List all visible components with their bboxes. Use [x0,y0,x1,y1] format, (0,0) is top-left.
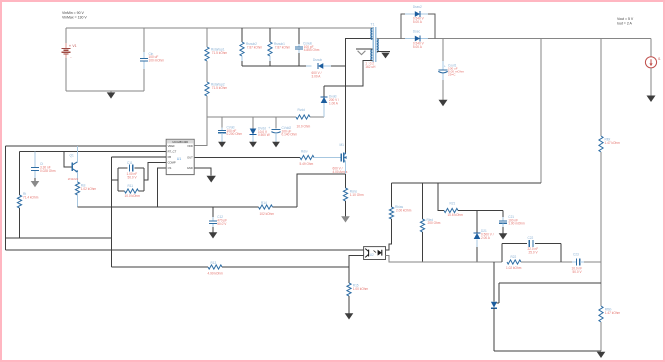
ground IC [207,176,216,183]
resistor R14 [259,205,273,209]
wire Dsec2 branch [401,14,405,39]
svg-text:+: + [268,126,270,130]
resistor Rstartup2 [205,82,209,96]
wire secondary gnd return [494,350,601,352]
wire FB node column [111,157,113,267]
ground input [110,91,112,92]
wire startup column [206,28,208,47]
wire CS jog [158,168,167,207]
wire input bottom [66,90,144,92]
wire input top rail [66,27,373,29]
svg-text:+: + [444,65,446,69]
wire opto bias rail [392,182,542,184]
resistor Rled [422,183,424,219]
wire output rail [428,38,651,40]
capacitor C12 [212,207,214,217]
svg-text:Dsec: Dsec [413,30,421,34]
svg-text:Iout = 2 A: Iout = 2 A [617,21,633,25]
ground fb bottom [597,352,606,358]
mosfet M1 [340,154,342,162]
voltage source V1 [62,47,71,49]
svg-text:R13: R13 [211,261,217,265]
svg-text:Dsnub: Dsnub [313,58,322,62]
capacitor Csnub [295,46,303,48]
svg-text:5.00 A: 5.00 A [413,45,423,49]
svg-text:50.0 V: 50.0 V [217,222,227,226]
diode D21 [476,211,478,233]
svg-text:5.00 A: 5.00 A [413,20,423,24]
ground Ct [31,181,40,187]
diode Dsec [405,38,415,40]
svg-text:CS: CS [168,166,172,170]
ground C21 [499,233,508,239]
svg-text:COMP: COMP [168,161,176,165]
svg-text:T1: T1 [371,22,375,26]
svg-text:Dsec2: Dsec2 [413,5,422,9]
svg-text:25=C: 25=C [448,73,456,77]
svg-text:5.49 Ohm: 5.49 Ohm [300,162,314,166]
capacitor CVdd [221,117,223,128]
ground secondary return [377,51,390,53]
svg-text:C22: C22 [528,236,534,240]
svg-text:100 mOhm: 100 mOhm [149,59,165,63]
resistor Rdrv [300,155,314,159]
wire Vout sense column [600,39,602,137]
wire VREF line [6,145,167,147]
svg-text:R22: R22 [511,255,517,259]
svg-text:R11: R11 [128,184,134,188]
svg-text:1.00 A: 1.00 A [329,101,339,105]
diode Dsnub [306,65,312,67]
ground C12 [209,232,218,238]
svg-text:R21: R21 [450,202,456,206]
wire opto out [386,256,502,263]
wire source [345,161,347,174]
svg-text:C23: C23 [573,252,579,256]
svg-text:4.854 Ohm: 4.854 Ohm [304,48,320,52]
svg-text:10.0 Ohm: 10.0 Ohm [297,125,311,129]
resistor Rsns [343,188,347,201]
resistor Rt [17,195,21,208]
svg-text:1.47 kOhm: 1.47 kOhm [605,141,621,145]
wire fb mid [600,262,602,306]
capacitor Ct [34,152,36,168]
capacitor CVdd2 [275,117,277,129]
ground R15 [345,313,354,319]
svg-text:0.028 Ohm: 0.028 Ohm [40,169,56,173]
ground Rsns [341,216,350,222]
shunt regulator U3 TL431 [493,262,495,302]
resistor R15 [348,267,350,283]
svg-text:2.00 kOhm: 2.00 kOhm [396,209,412,213]
svg-text:Q1: Q1 [70,154,74,158]
svg-text:10.6 kOhm: 10.6 kOhm [448,213,464,217]
wire aux winding to Dvdd [324,61,372,86]
svg-text:102 kOhm: 102 kOhm [260,212,275,216]
svg-text:50.0 V: 50.0 V [573,270,583,274]
ground aux top [356,48,372,50]
op-amp U1 controller UCC28C43 [166,139,194,174]
wire snubber bottom [242,65,306,67]
svg-text:1.02 kOhm: 1.02 kOhm [506,266,522,270]
wire VREF to opto collector [6,249,364,251]
svg-text:71.4 kOhm: 71.4 kOhm [23,195,39,199]
diode Dsec2 [405,13,415,15]
svg-text:4.99 kOhm: 4.99 kOhm [208,271,224,275]
svg-text:1.00 kOhm: 1.00 kOhm [353,287,369,291]
current source Iload [650,39,652,57]
svg-text:71.5 kOhm: 71.5 kOhm [212,51,228,55]
svg-text:50.0 V: 50.0 V [128,175,138,179]
svg-text:200 Ohm: 200 Ohm [428,221,441,225]
svg-text:7.87 kOhm: 7.87 kOhm [275,45,291,49]
svg-text:3.00 A: 3.00 A [312,75,322,79]
wire VREF left column [5,146,7,250]
svg-text:UCC28C43D: UCC28C43D [172,140,188,144]
svg-text:71.5 kOhm: 71.5 kOhm [212,86,228,90]
zener diode DVdd [252,117,254,129]
wire comp box [117,168,119,191]
svg-text:1.10 Ohm: 1.10 Ohm [350,193,364,197]
wire FB pin [112,156,167,158]
wire RT_CT line [20,151,167,153]
capacitor C11 [128,165,130,172]
svg-text:0.200 Ohm: 0.200 Ohm [227,132,243,136]
wire Rbias to opto [386,219,392,250]
svg-text:7.87 kOhm: 7.87 kOhm [247,45,263,49]
svg-text:VinMax = 130 V: VinMax = 130 V [62,15,87,19]
wire V1 leads [65,28,67,43]
svg-text:25.0 V: 25.0 V [529,251,539,255]
wire sense link [297,174,346,207]
ground output cap [439,100,448,107]
svg-text:2N2222: 2N2222 [68,177,79,181]
optocoupler U2 [364,247,386,260]
resistor Rstartup1 [205,47,209,61]
svg-text:GND: GND [187,166,193,170]
capacitor Cin [143,28,145,52]
resistor Rfbt [599,136,603,152]
wire VDD rail [207,116,296,118]
wire TL431 ref [499,282,601,284]
resistor Rsl [75,182,79,195]
svg-text:U1: U1 [177,157,182,161]
svg-text:Rvdd: Rvdd [298,108,306,112]
svg-text:VDD: VDD [187,144,193,148]
svg-text:1.47 kOhm: 1.47 kOhm [605,311,621,315]
wire primary bottom switch node [346,39,373,153]
transistor Q1 [64,152,72,167]
svg-text:RT_CT: RT_CT [168,150,177,154]
svg-text:I1: I1 [658,57,661,61]
capacitor C22 [502,243,527,245]
svg-text:V1: V1 [72,44,76,48]
resistor Rvdd [296,115,310,119]
resistor Rfbb [599,306,603,322]
wire CS line [78,206,259,208]
wire Rt bottom link [6,237,112,239]
wire RT column [19,152,21,196]
wire gate [194,157,300,159]
svg-text:OUT: OUT [187,156,193,160]
svg-text:10.0 kOhm: 10.0 kOhm [125,194,141,198]
svg-text:R14: R14 [261,201,267,205]
svg-text:0.500 W: 0.500 W [258,133,270,137]
resistor Rsnub2 [240,42,244,56]
wire Vout to opto bias rail [540,39,542,184]
svg-text:M1: M1 [340,143,345,147]
capacitor C21 [502,211,504,218]
wire drain [345,66,347,153]
resistor Rsnub1 [268,42,272,56]
wire snubber columns [241,28,243,42]
transformer T1 [372,27,374,62]
wire COMP jog [144,163,166,181]
resistor Rbias [391,183,393,207]
wire secondary rail [377,38,409,40]
svg-text:1.00 mOhm: 1.00 mOhm [508,222,525,226]
svg-text:FB: FB [168,155,172,159]
diode Dvdd [323,86,325,96]
resistor R22 [501,244,503,263]
svg-text:0.140 Ohm: 0.140 Ohm [282,133,298,137]
svg-text:C11: C11 [127,161,133,165]
svg-text:Rdrv: Rdrv [301,149,308,153]
capacitor Cout1 [442,39,444,62]
wire opto emitter [349,256,364,268]
svg-text:U2: U2 [370,253,374,257]
svg-text:1.02 kOhm: 1.02 kOhm [81,187,97,191]
resistor R11 [125,189,139,193]
wire GND pin [194,168,211,176]
capacitor C23 [572,261,576,263]
wire VDD to pin [194,117,207,146]
ground load [647,96,656,103]
resistor R13 [112,266,209,268]
svg-text:VREF: VREF [168,144,176,148]
svg-text:2.00 A: 2.00 A [481,236,491,240]
svg-text:162 uH: 162 uH [365,65,376,69]
resistor R21 [438,183,444,211]
